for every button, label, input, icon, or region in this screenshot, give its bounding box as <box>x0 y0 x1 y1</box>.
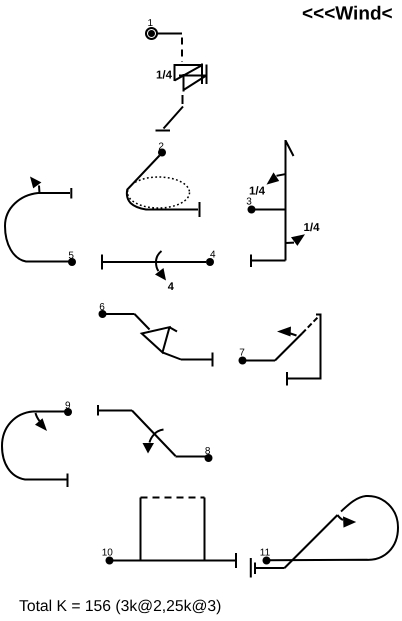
svg-text:1/4: 1/4 <box>304 222 321 234</box>
svg-text:Total K = 156 (3k@2,25k@3): Total K = 156 (3k@2,25k@3) <box>19 598 221 615</box>
svg-text:1/4: 1/4 <box>156 70 173 82</box>
svg-text:8: 8 <box>205 446 211 457</box>
svg-text:7: 7 <box>239 347 245 358</box>
svg-text:3: 3 <box>246 197 252 208</box>
svg-text:<<<Wind<: <<<Wind< <box>302 4 393 25</box>
svg-text:4: 4 <box>168 281 175 293</box>
svg-text:2: 2 <box>158 142 164 153</box>
svg-text:4: 4 <box>210 249 216 260</box>
svg-text:5: 5 <box>68 251 74 262</box>
svg-text:10: 10 <box>102 548 114 559</box>
svg-text:9: 9 <box>65 401 71 412</box>
svg-text:1: 1 <box>148 18 154 29</box>
svg-text:6: 6 <box>99 302 105 313</box>
svg-text:1/4: 1/4 <box>249 185 266 197</box>
svg-text:11: 11 <box>260 548 271 559</box>
